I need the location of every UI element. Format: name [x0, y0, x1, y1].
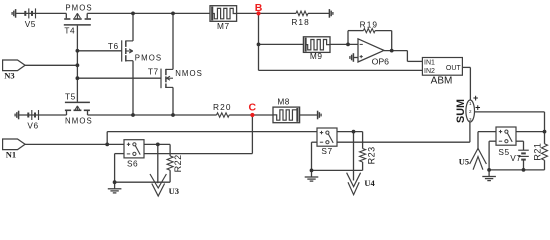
wire feedback right [375, 31, 392, 51]
svg-text:NMOS: NMOS [65, 116, 93, 125]
wire M9 to op-amp inverting input [330, 43, 358, 45]
svg-text:T7: T7 [148, 67, 159, 77]
resistor R22 [167, 154, 183, 172]
svg-text:R20: R20 [213, 102, 232, 112]
svg-text:U4: U4 [364, 178, 375, 188]
svg-text:T4: T4 [64, 25, 75, 35]
ground below S7 [305, 170, 319, 181]
svg-text:PMOS: PMOS [65, 3, 92, 12]
battery V7 [510, 150, 529, 163]
ground (rotated) at OP6 + input [350, 53, 358, 62]
svg-text:ABM: ABM [431, 76, 453, 87]
svg-text:OUT: OUT [446, 65, 462, 72]
port U4 [347, 173, 376, 195]
svg-text:R22: R22 [173, 154, 183, 172]
wire S6 minus to ground [115, 154, 124, 183]
wire bottom right ground run [489, 169, 544, 171]
svg-text:N1: N1 [6, 149, 16, 159]
wire S7 ground run to R23 bottom [312, 162, 363, 170]
svg-text:B: B [255, 2, 263, 14]
wire S5 bottom contact to V7 [516, 141, 524, 150]
wire R18 to terminal [308, 12, 329, 14]
port N1 [3, 139, 26, 159]
transistor T7 NMOS [148, 67, 203, 89]
svg-text:N3: N3 [4, 70, 14, 80]
svg-text:R23: R23 [366, 146, 376, 164]
wire IN2 line [259, 69, 423, 71]
svg-text:V6: V6 [27, 121, 38, 131]
wire R22 top lead [169, 144, 171, 156]
svg-text:OP6: OP6 [372, 57, 390, 67]
resistor R21 [533, 143, 548, 161]
node C [249, 102, 257, 118]
svg-text:IN1: IN1 [424, 60, 435, 67]
wire M8 to terminal [300, 114, 318, 116]
resistor R18 [291, 11, 310, 27]
wire node B column down to IN2 line [258, 13, 260, 70]
ground (rotated) at V6 [15, 111, 19, 120]
wire OUT to SUM [462, 67, 470, 100]
wire op-amp output to IN1 [384, 51, 422, 62]
svg-text:M8: M8 [277, 96, 290, 106]
switch S5 [496, 127, 516, 157]
svg-text:V5: V5 [25, 19, 36, 29]
wire T7 gate [77, 77, 161, 79]
svg-text:S6: S6 [127, 159, 138, 169]
wire top rail middle (T4 to M7) [87, 12, 210, 14]
wire R22 bottom lead and ground run [115, 170, 171, 182]
wire top rail (M7 to node B to R18) [237, 12, 296, 14]
port N3 [3, 60, 26, 80]
wire N1 branch up [106, 132, 108, 145]
wire S7 minus to ground [312, 142, 318, 170]
svg-text:PMOS: PMOS [135, 54, 162, 63]
svg-text:+: + [475, 102, 480, 112]
wire S5 plus to U5 [478, 132, 496, 150]
transistor T5 NMOS (horizontal) [65, 92, 93, 126]
svg-text:R19: R19 [360, 20, 379, 30]
wire S5 top contact to R21 node [516, 131, 545, 133]
battery V6 [27, 110, 38, 131]
wire R21 bottom lead [544, 160, 546, 170]
wire U4 branch [353, 132, 355, 181]
wire node C column to S6 bottom contact [144, 115, 252, 154]
SUM block [455, 93, 481, 123]
ground (rotated) at V5 [12, 9, 16, 18]
svg-text:+: + [473, 93, 478, 103]
svg-text:V7: V7 [510, 153, 521, 163]
wire M9 branch [259, 43, 304, 45]
wire R20 to node C to M8 [229, 114, 273, 116]
node B [255, 2, 263, 15]
memristor M9 [303, 37, 330, 61]
svg-text:S7: S7 [321, 146, 332, 156]
svg-text:U5: U5 [459, 156, 469, 166]
battery V5 [25, 8, 36, 29]
wire V7 bottom lead [523, 160, 525, 170]
svg-text:R18: R18 [291, 17, 310, 27]
wire SUM pin3 down and left to S7 [337, 122, 470, 142]
wire top rail left (V5 to T4) [16, 12, 67, 14]
wire N3 to gate column [25, 64, 77, 66]
resistor R23 [360, 146, 377, 164]
memristor M7 [210, 6, 237, 31]
switch S7 [317, 128, 337, 156]
wire T6 drain column [132, 13, 134, 115]
svg-text:T6: T6 [108, 41, 119, 51]
wire S6 top contact to R22 [144, 143, 170, 145]
ground below S5 [482, 170, 496, 181]
wire bottom rail left (V6 to T5) [19, 114, 67, 116]
wire T7 drain column [172, 13, 174, 115]
wire S7 top contact to R23 [337, 131, 363, 133]
resistor R20 [213, 102, 232, 117]
svg-text:IN2: IN2 [424, 68, 435, 75]
wire SUM pin2 to right column [474, 112, 544, 144]
port U3 [150, 174, 179, 196]
wire bottom rail (T5 to R20) [88, 114, 217, 116]
svg-text:R21: R21 [533, 143, 543, 161]
wire R23 top lead [362, 132, 364, 149]
resistor R19 [360, 20, 379, 33]
transistor T4 PMOS (horizontal) [64, 3, 93, 35]
ABM block [422, 58, 462, 87]
svg-text:SUM: SUM [455, 99, 467, 123]
op-amp OP6 [358, 39, 389, 67]
svg-text:M7: M7 [217, 21, 230, 31]
memristor M8 [273, 96, 300, 122]
transistor T6 PMOS [108, 40, 162, 62]
wire S5 minus to ground [489, 141, 496, 170]
wire N1 to S6 [25, 143, 124, 145]
svg-text:NMOS: NMOS [175, 69, 203, 78]
wire mid control line to S7 plus [107, 131, 317, 133]
wire T6 gate [77, 50, 121, 52]
svg-text:S5: S5 [498, 147, 509, 157]
svg-text:U3: U3 [169, 186, 179, 196]
svg-text:T5: T5 [65, 92, 76, 102]
switch S6 [124, 140, 144, 169]
port U5 [459, 148, 487, 169]
ground below S6 [108, 182, 122, 193]
svg-text:M9: M9 [310, 51, 323, 61]
ground (rotated) at R18 [329, 9, 333, 18]
wire feedback left [348, 31, 363, 45]
svg-text:C: C [249, 102, 257, 114]
wire gate column [76, 26, 78, 102]
ground (rotated) at M8 [318, 111, 322, 120]
wire U3 branch [157, 144, 159, 183]
